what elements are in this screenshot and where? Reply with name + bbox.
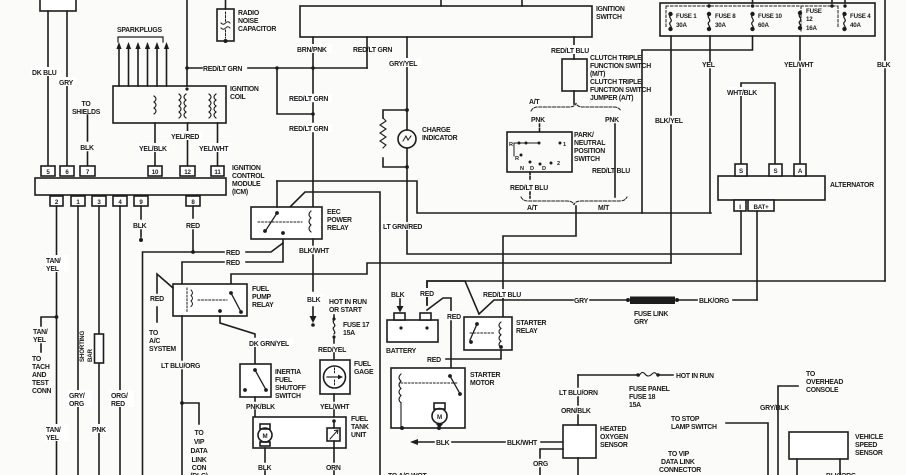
battery [387, 313, 438, 342]
wire ORN fuel sender [333, 448, 335, 475]
svg-text:40A: 40A [850, 22, 861, 29]
svg-text:ORG/: ORG/ [111, 393, 128, 400]
svg-text:ORG: ORG [533, 461, 548, 468]
svg-text:CLUTCH TRIPLE: CLUTCH TRIPLE [590, 55, 642, 62]
svg-text:TO VIP: TO VIP [668, 451, 690, 458]
pin 8 [186, 196, 200, 206]
fuel pump motor M [258, 424, 272, 446]
svg-text:S: S [774, 168, 778, 175]
svg-text:12: 12 [184, 169, 191, 176]
pin 6 [60, 166, 74, 176]
svg-text:BRN/PNK: BRN/PNK [297, 47, 327, 54]
svg-text:FUSE 18: FUSE 18 [629, 394, 656, 401]
svg-text:BLK/WHT: BLK/WHT [507, 440, 538, 447]
svg-text:R: R [509, 142, 513, 148]
svg-text:NOISE: NOISE [238, 18, 259, 25]
wire BRN/PNK / RED/LT GRN vertical to EEC coil [312, 37, 314, 207]
wire RED/LT GRN from switch [353, 37, 392, 68]
svg-text:RELAY: RELAY [327, 225, 349, 232]
fuel pump relay coil [187, 288, 227, 312]
ICM box [35, 178, 226, 195]
svg-text:RED: RED [447, 314, 461, 321]
svg-text:RED: RED [420, 291, 434, 298]
svg-text:OXYGEN: OXYGEN [600, 434, 628, 441]
svg-text:SWITCH: SWITCH [596, 14, 622, 21]
svg-text:TO: TO [32, 356, 42, 363]
svg-text:BATTERY: BATTERY [386, 348, 417, 355]
svg-text:PNK/BLK: PNK/BLK [246, 404, 275, 411]
svg-text:VIP: VIP [194, 439, 205, 446]
pin 1 [71, 196, 85, 206]
svg-text:BLK/ORG: BLK/ORG [699, 298, 729, 305]
svg-text:CAPACITOR: CAPACITOR [238, 26, 276, 33]
label LT GRN/RED [382, 222, 424, 231]
wire ORG from O2 [540, 449, 563, 475]
fuse 8 30A [707, 12, 710, 30]
svg-text:A: A [798, 168, 803, 175]
svg-text:HOT IN RUN: HOT IN RUN [676, 373, 714, 380]
wire O2 bottom [577, 458, 579, 475]
terminal S [735, 164, 747, 176]
pin 9 [134, 196, 148, 206]
svg-text:MOTOR: MOTOR [470, 380, 495, 387]
wire PNK dashed to PNP switch [539, 124, 541, 132]
wire YEL/RED pin12 [171, 123, 202, 166]
svg-text:LINK: LINK [191, 457, 206, 464]
wire GRY/ORG pin1 [77, 206, 79, 475]
svg-text:STARTER: STARTER [516, 320, 547, 327]
pin 2 [50, 196, 63, 206]
svg-text:ORG: ORG [69, 401, 84, 408]
node TO STOP LAMP SWITCH [671, 416, 717, 431]
EEC relay coil [309, 211, 311, 232]
svg-text:RED: RED [150, 296, 164, 303]
svg-text:LT BLU/ORG: LT BLU/ORG [161, 363, 200, 370]
svg-text:BAR: BAR [87, 348, 94, 362]
wire BLK right edge [884, 0, 886, 281]
wire DK GRN/YEL to inertia switch [220, 316, 255, 364]
svg-text:VEHICLE: VEHICLE [855, 434, 884, 441]
node HOT IN RUN [676, 373, 714, 380]
svg-text:BLK: BLK [877, 62, 891, 69]
svg-text:SYSTEM: SYSTEM [149, 346, 176, 353]
label RED/LT GRN 2 [288, 94, 332, 103]
svg-text:BLK/WHT: BLK/WHT [299, 248, 330, 255]
distributor box top-left [40, 0, 76, 11]
pin 12 [180, 166, 195, 176]
ground arrow BLK [310, 316, 317, 327]
starter relay [464, 317, 512, 350]
svg-text:RADIO: RADIO [238, 10, 260, 17]
EEC power relay [251, 207, 322, 239]
alternator [718, 176, 825, 200]
svg-text:INERTIA: INERTIA [275, 369, 301, 376]
svg-text:YEL: YEL [702, 62, 715, 69]
svg-text:ALTERNATOR: ALTERNATOR [830, 182, 874, 189]
svg-text:BLK: BLK [391, 292, 405, 299]
pin 10 [148, 166, 162, 176]
wire PNK pin3 with shorting bar [98, 206, 100, 475]
svg-text:YEL: YEL [46, 435, 59, 442]
svg-text:16A: 16A [806, 25, 817, 32]
wire WHT/BLK jumper S-S [726, 83, 775, 164]
charge indicator circuit [380, 110, 407, 167]
wire RED to A/C system [157, 274, 173, 322]
svg-text:30A: 30A [676, 22, 687, 29]
svg-text:GAGE: GAGE [354, 369, 374, 376]
svg-text:ORN: ORN [326, 465, 341, 472]
svg-text:POSITION: POSITION [574, 148, 605, 155]
svg-text:POWER: POWER [327, 217, 352, 224]
svg-text:DATA LINK: DATA LINK [661, 459, 695, 466]
pin 11 [211, 166, 224, 176]
svg-text:CON: CON [192, 465, 207, 472]
svg-text:CHARGE: CHARGE [422, 127, 451, 134]
starter motor contacts [401, 376, 459, 392]
svg-text:FUSE LINK: FUSE LINK [634, 311, 668, 318]
wire YEL bus to EEC relay (fuse 8) [277, 181, 711, 213]
svg-text:D: D [530, 166, 534, 172]
svg-text:IGNITION: IGNITION [230, 86, 259, 93]
svg-text:M/T: M/T [598, 205, 610, 212]
label PNK [91, 424, 108, 434]
svg-text:60A: 60A [758, 22, 769, 29]
svg-text:TO: TO [149, 330, 159, 337]
svg-text:BAT+: BAT+ [753, 204, 769, 211]
net RED/LT GRN horizontal [187, 66, 367, 73]
wire RED battery positive up [419, 281, 479, 314]
svg-text:FUEL: FUEL [252, 286, 269, 293]
clutch triple function switch [562, 59, 587, 91]
radio noise capacitor [217, 0, 234, 43]
svg-text:RED: RED [186, 223, 200, 230]
pin 5 [41, 166, 55, 176]
svg-text:RED/LT BLU: RED/LT BLU [592, 168, 630, 175]
shorting bar [95, 334, 104, 363]
svg-text:RED/LT GRN: RED/LT GRN [353, 47, 392, 54]
wire clutch to bracket [573, 91, 575, 104]
svg-text:TO: TO [806, 371, 816, 378]
label BLK battery ground [391, 292, 405, 299]
svg-text:LAMP SWITCH: LAMP SWITCH [671, 424, 717, 431]
fuse 12 16A [798, 11, 801, 29]
svg-text:YEL: YEL [33, 337, 46, 344]
wire BLK pin9 stub [139, 206, 143, 242]
node TO VIP DATA LINK CONNECTOR [659, 451, 701, 474]
wire ORG/RED pin4 [119, 206, 121, 475]
terminal BAT+ [748, 200, 774, 211]
svg-text:CONTROL: CONTROL [232, 173, 264, 180]
svg-text:RED/YEL: RED/YEL [318, 347, 346, 354]
wire PNK/BLK [254, 397, 256, 417]
vehicle speed sensor [789, 432, 848, 459]
svg-text:TAN/: TAN/ [33, 329, 48, 336]
heated oxygen sensor [563, 425, 596, 458]
wire BLK fuse4 to battery [427, 281, 885, 305]
svg-text:PNK: PNK [531, 117, 545, 124]
svg-text:FUSE 10: FUSE 10 [758, 13, 782, 20]
svg-text:EEC: EEC [327, 209, 341, 216]
wire LT GRN/RED from EEC down page [290, 192, 380, 475]
svg-text:TO: TO [82, 101, 92, 108]
svg-text:CONN: CONN [32, 388, 52, 395]
fuse 10 60A [751, 12, 754, 30]
svg-text:DK GRN/YEL: DK GRN/YEL [249, 341, 289, 348]
wire BAT+ down [756, 211, 758, 300]
svg-text:YEL/RED: YEL/RED [171, 134, 199, 141]
svg-text:IGNITION: IGNITION [232, 165, 261, 172]
fuel pump relay [173, 284, 247, 316]
wire PNK solid M/T [614, 124, 616, 197]
charge indicator lamp [398, 110, 416, 167]
svg-text:PARK/: PARK/ [574, 132, 594, 139]
wire charge indicator to alternator I [407, 167, 741, 254]
svg-text:RELAY: RELAY [516, 328, 538, 335]
svg-text:(ICM): (ICM) [232, 189, 248, 196]
svg-text:RED: RED [226, 260, 240, 267]
svg-text:YEL/WHT: YEL/WHT [784, 62, 814, 69]
wire BLK ground line [410, 439, 563, 447]
label TAN/YEL upper [45, 255, 69, 273]
svg-text:A/T: A/T [527, 205, 538, 212]
label RED/LT BLU starter relay [482, 289, 525, 299]
ground arrow battery [397, 299, 404, 313]
svg-text:S: S [739, 168, 743, 175]
svg-text:TAN/: TAN/ [46, 427, 61, 434]
wire RED/LT BLU dashed from PNP [529, 172, 531, 198]
svg-text:FUEL: FUEL [351, 416, 368, 423]
wire BLK/WHT ground from EEC coil [312, 239, 314, 316]
svg-text:OR START: OR START [329, 307, 363, 314]
starter motor M [432, 403, 447, 428]
wire RED pin8 [191, 206, 195, 254]
wire RED/LT BLU to clutch switch [550, 37, 591, 59]
svg-text:STARTER: STARTER [470, 372, 501, 379]
svg-text:OVERHEAD: OVERHEAD [806, 379, 843, 386]
svg-text:BLK: BLK [258, 465, 272, 472]
node TO OVERHEAD CONSOLE [806, 371, 843, 394]
svg-text:11: 11 [214, 169, 221, 176]
svg-text:IGNITION: IGNITION [596, 6, 625, 13]
svg-text:UNIT: UNIT [351, 432, 367, 439]
wire EEC feed from top [276, 181, 278, 207]
label GRY/ORG [68, 390, 92, 408]
fuel pump relay contacts [231, 293, 240, 310]
park/neutral position switch [507, 132, 572, 172]
wire I to charge indicator line [740, 211, 742, 254]
fuse panel feed stubs [753, 0, 846, 3]
svg-text:TO STOP: TO STOP [671, 416, 700, 423]
label IGNITION COIL [230, 86, 259, 101]
fuse panel fuse 18 15A [578, 372, 673, 376]
svg-text:INDICATOR: INDICATOR [422, 135, 458, 142]
svg-text:R: R [515, 156, 519, 162]
svg-text:(M/T): (M/T) [590, 71, 605, 78]
svg-text:2: 2 [557, 161, 560, 167]
wire LT BLU/ORN / ORN/BLK to O2 [577, 375, 579, 425]
svg-text:GRY/: GRY/ [69, 393, 85, 400]
terminal S [769, 164, 782, 176]
svg-text:RED: RED [111, 401, 125, 408]
wire RED eec contact to fuel pump relay [182, 243, 283, 284]
wire branch to tach [41, 317, 57, 352]
wire GRY pin6 [66, 11, 68, 166]
wire BLK/ORG from BAT+ [677, 298, 757, 305]
wire RED starter relay to motor [427, 350, 501, 364]
svg-text:BLK: BLK [80, 145, 94, 152]
node TO A/C WOT cut [388, 473, 427, 475]
svg-text:YEL/WHT: YEL/WHT [199, 146, 229, 153]
svg-text:MODULE: MODULE [232, 181, 261, 188]
fuse panel box [660, 3, 875, 36]
bracket A/T jumper (upper) [531, 103, 621, 111]
svg-text:12: 12 [806, 16, 813, 23]
svg-text:SENSOR: SENSOR [855, 450, 883, 457]
wires VSS down [797, 459, 840, 475]
svg-text:RED/LT GRN: RED/LT GRN [203, 66, 242, 73]
svg-text:BLK: BLK [436, 440, 450, 447]
svg-text:JUMPER (A/T): JUMPER (A/T) [590, 95, 633, 102]
wire BLK fuel pump ground [264, 448, 266, 475]
wire YEL/WHT fuse12 to alternator A [799, 36, 801, 164]
wire GRY/YEL [388, 37, 421, 110]
label RED/LT BLU (M/T wire) [592, 168, 630, 175]
pin 7 [80, 166, 95, 176]
svg-text:D: D [542, 166, 546, 172]
fuse 4 40A [843, 12, 846, 30]
svg-text:AND: AND [32, 372, 46, 379]
fuse 17 15A [333, 315, 335, 360]
wire RED/LT GRN loop [277, 68, 315, 116]
label RED/LT GRN 3 [288, 124, 332, 133]
svg-text:FUSE 17: FUSE 17 [343, 322, 370, 329]
svg-text:15A: 15A [343, 330, 355, 337]
fuse link GRY [626, 297, 679, 305]
svg-text:N: N [520, 166, 524, 172]
svg-text:RED/LT BLU: RED/LT BLU [510, 185, 548, 192]
label PNK left [531, 117, 545, 124]
fuse panel dashed bus [666, 6, 838, 33]
sparkplug wires (6 arrows) [116, 42, 169, 86]
fuel gage [320, 360, 350, 394]
wire YEL/WHT [333, 394, 335, 417]
svg-text:CONSOLE: CONSOLE [806, 387, 839, 394]
svg-text:SHIELDS: SHIELDS [72, 109, 101, 116]
svg-text:FUSE PANEL: FUSE PANEL [629, 386, 670, 393]
wire YEL/BLK pin10 [139, 123, 169, 166]
label PNK right [605, 117, 619, 124]
wire BLK/YEL fuse1 to fuel pump relay [231, 263, 671, 284]
svg-text:ORN/BLK: ORN/BLK [561, 408, 591, 415]
pin 4 [113, 196, 127, 206]
starter relay coil [499, 322, 501, 348]
svg-text:DK BLU: DK BLU [32, 70, 57, 77]
node TO VIP DATA LINK CON (DLC) [190, 430, 208, 475]
ignition coil box [113, 86, 226, 123]
label DK BLU [31, 67, 60, 77]
svg-text:FUSE 8: FUSE 8 [715, 13, 736, 20]
svg-text:RED: RED [226, 250, 240, 257]
svg-text:TEST: TEST [32, 380, 50, 387]
svg-text:30A: 30A [715, 22, 726, 29]
label ORG/RED [110, 390, 134, 408]
wire YEL fuse8 down [709, 36, 711, 213]
ignition coil windings [154, 94, 216, 118]
svg-text:RELAY: RELAY [252, 302, 274, 309]
svg-text:GRY/YEL: GRY/YEL [389, 61, 417, 68]
fuel sender [327, 419, 340, 448]
terminal A [794, 164, 806, 176]
wire BLK to shields pin7 [87, 115, 89, 166]
svg-text:RED/LT BLU: RED/LT BLU [551, 48, 589, 55]
fuel tank unit box [253, 417, 346, 448]
svg-text:M: M [263, 433, 268, 440]
svg-text:A/T: A/T [529, 99, 540, 106]
svg-text:GRY: GRY [574, 298, 589, 305]
svg-text:SWITCH: SWITCH [574, 156, 600, 163]
svg-text:RED/LT GRN: RED/LT GRN [289, 126, 328, 133]
svg-text:M: M [437, 414, 442, 421]
wire LT BLU/ORG down [180, 316, 184, 475]
svg-text:RED/LT GRN: RED/LT GRN [289, 96, 328, 103]
label BLK [80, 145, 94, 152]
svg-text:GRY/BLK: GRY/BLK [760, 405, 789, 412]
wire BLK/YEL fuse1 down [670, 36, 672, 263]
wire branch to VIP DLC [182, 403, 199, 424]
svg-text:TACH: TACH [32, 364, 50, 371]
svg-text:SWITCH: SWITCH [275, 393, 301, 400]
svg-text:TAN/: TAN/ [46, 258, 61, 265]
svg-text:SPEED: SPEED [855, 442, 877, 449]
svg-text:FUSE 1: FUSE 1 [676, 13, 697, 20]
svg-text:15A: 15A [629, 402, 641, 409]
svg-text:BLK: BLK [133, 223, 147, 230]
bracket A/T M/T merge (lower) [521, 197, 627, 205]
svg-text:CLUTCH TRIPLE: CLUTCH TRIPLE [590, 79, 642, 86]
fuse 1 30A [669, 12, 672, 30]
wire YEL/WHT pin11 [199, 123, 232, 166]
svg-text:SENSOR: SENSOR [600, 442, 628, 449]
starter relay contacts [470, 324, 494, 340]
svg-text:A/C: A/C [149, 338, 160, 345]
wire fuse10 to bus [642, 36, 753, 213]
EEC relay contacts [258, 213, 302, 230]
svg-text:PNK: PNK [605, 117, 619, 124]
svg-text:1: 1 [563, 142, 566, 148]
svg-text:YEL/WHT: YEL/WHT [320, 404, 350, 411]
svg-text:RED/LT BLU: RED/LT BLU [483, 292, 521, 299]
svg-text:HOT IN RUN: HOT IN RUN [329, 299, 367, 306]
svg-text:TO: TO [195, 430, 205, 437]
svg-text:FUEL: FUEL [275, 377, 292, 384]
svg-text:TANK: TANK [351, 424, 369, 431]
wire GRY to fuse link [479, 298, 628, 314]
svg-text:SHORTING: SHORTING [79, 331, 86, 362]
node TO SHIELDS [72, 101, 101, 116]
pin 3 [92, 196, 106, 206]
wire RED/LT BLU merge to starter relay coil [503, 206, 576, 317]
wire coil feed from top edge [185, 0, 189, 91]
wire RED battery to starter motor [427, 298, 463, 368]
wire DK BLU pin5 [47, 11, 49, 166]
label BRN/PNK [296, 44, 332, 54]
svg-text:10: 10 [152, 169, 159, 176]
wire GRY/BLK stop lamp [726, 423, 768, 475]
sparkplugs label and bracket [117, 27, 162, 34]
wire TAN/YEL pin2 [55, 206, 59, 475]
svg-text:GRY: GRY [59, 80, 74, 87]
label GRY [58, 77, 76, 87]
